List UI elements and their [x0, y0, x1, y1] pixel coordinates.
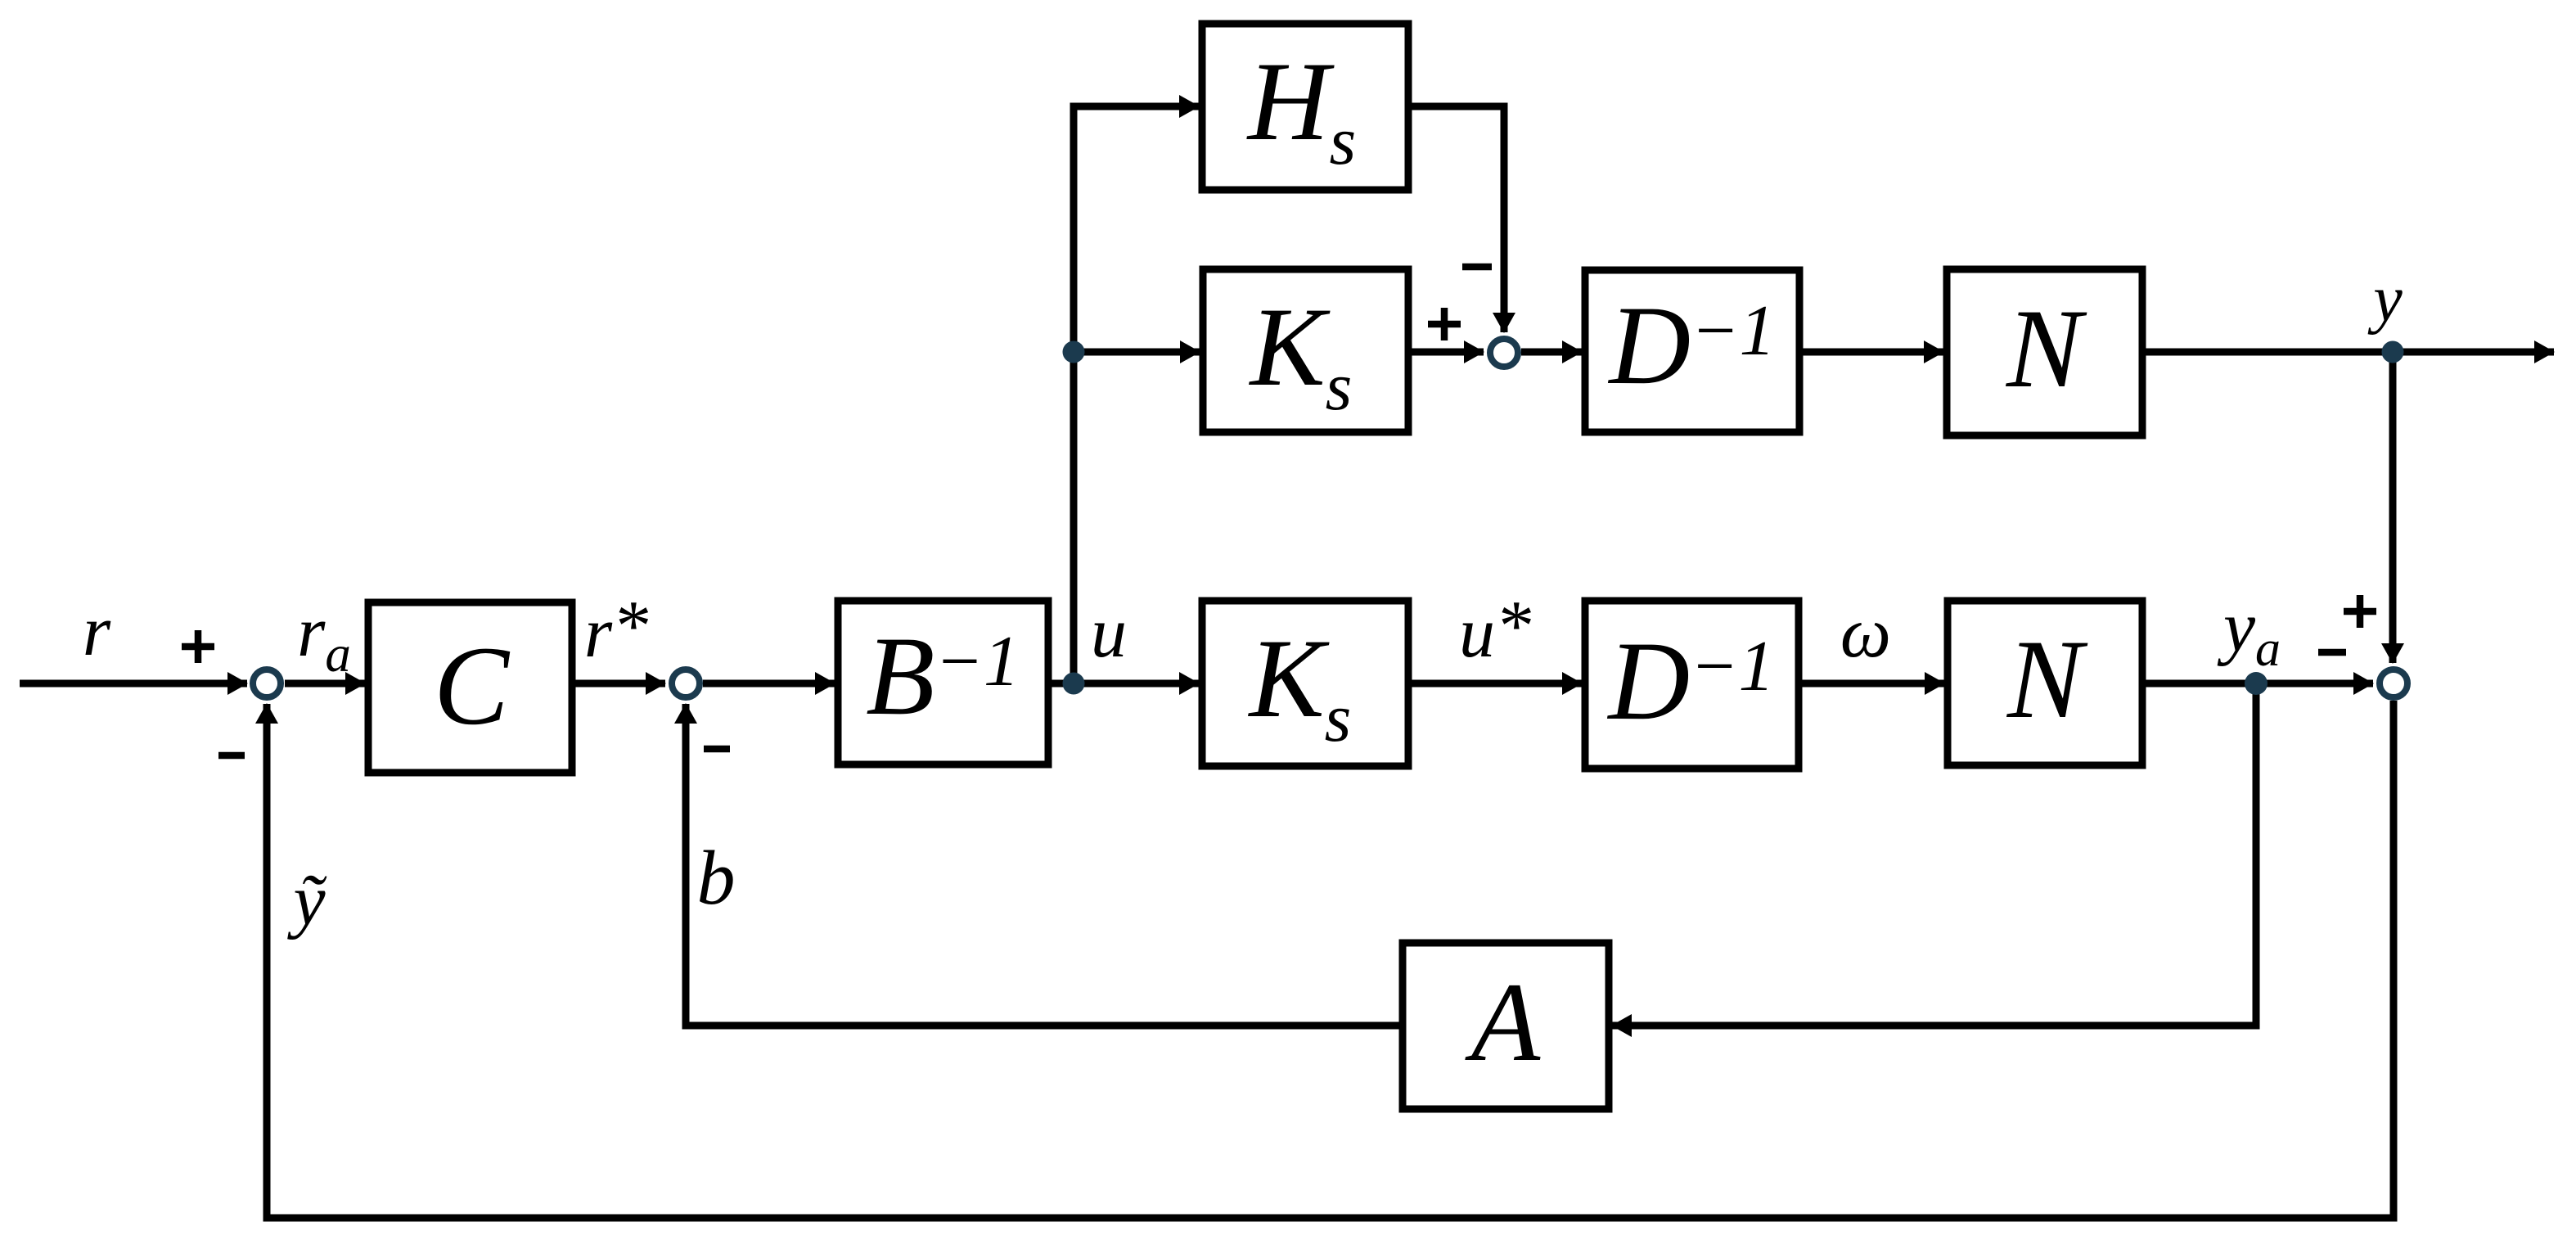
svg-text:r: r: [83, 592, 111, 671]
svg-text:N: N: [2005, 286, 2087, 411]
svg-text:ω: ω: [1840, 593, 1891, 673]
svg-text:A: A: [1465, 959, 1541, 1084]
svg-text:C: C: [434, 623, 511, 748]
svg-text:ya: ya: [2217, 588, 2281, 677]
svg-text:u: u: [1091, 593, 1127, 673]
svg-text:r*: r*: [584, 587, 648, 673]
svg-text:ỹ: ỹ: [286, 861, 327, 940]
svg-text:u*: u*: [1459, 587, 1531, 673]
svg-text:N: N: [2006, 616, 2088, 742]
svg-text:y: y: [2367, 264, 2403, 336]
svg-text:ra: ra: [297, 593, 351, 683]
svg-text:b: b: [697, 836, 736, 921]
